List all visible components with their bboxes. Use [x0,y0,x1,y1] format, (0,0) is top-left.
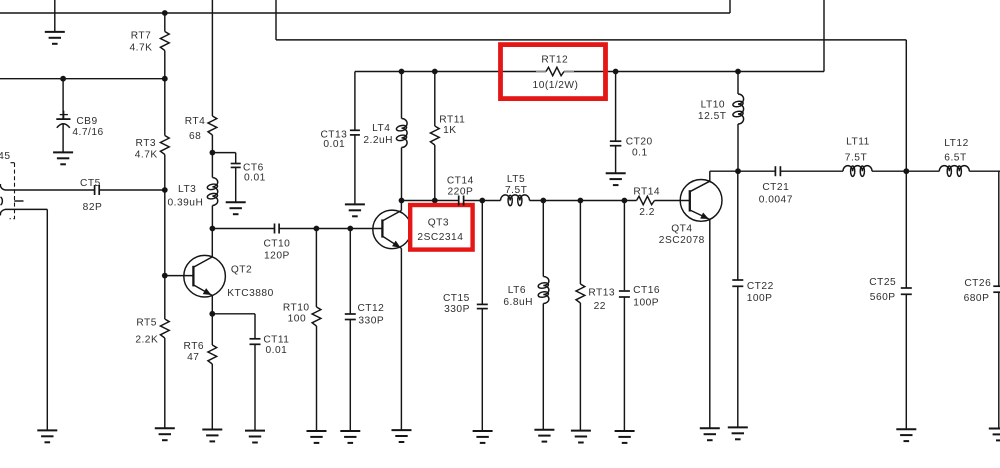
svg-text:0.01: 0.01 [244,173,266,184]
ground filter [37,430,57,442]
svg-text:RT14: RT14 [633,187,660,198]
wire LT5 to RT14 [530,200,637,202]
node junction CT16 tap [622,198,628,204]
svg-text:68: 68 [189,131,201,142]
svg-text:0.0047: 0.0047 [759,195,793,206]
svg-text:82P: 82P [83,202,103,213]
svg-text:CT15: CT15 [443,293,470,304]
ground under LT6 [534,430,554,442]
wire rail y=78.7 [0,78,165,80]
wire LT11 to LT12 [872,170,939,172]
svg-text:560P: 560P [870,292,896,303]
filter body arcs at left edge [0,184,5,215]
wire RT14 to QT4 base [655,200,690,202]
svg-text:2SC2078: 2SC2078 [659,235,705,246]
svg-text:CT26: CT26 [964,278,991,289]
svg-text:22: 22 [594,301,606,312]
inductor LT4 [363,72,407,201]
node junction LT10/CT22/QT4 collector [735,168,741,174]
svg-text:4.7K: 4.7K [135,149,158,160]
svg-text:2SC2314: 2SC2314 [417,232,463,243]
capacitor CT11 [212,314,289,431]
capacitor CT12 [345,229,385,432]
wire riser at x=824 [823,0,825,72]
node junction RT11 top [432,69,438,75]
wire QT2 emitter [211,296,213,314]
wire LT12 to edge [969,170,1000,172]
wire top rail riser at x=730 [729,0,731,13]
svg-text:7.5T: 7.5T [845,152,867,163]
node junction LT4/QT3 collector [399,198,405,204]
resistor RT10 [283,229,321,432]
svg-text:2.2K: 2.2K [135,334,158,345]
svg-text:CB9: CB9 [76,116,97,127]
node junction LT3/CT10/QT2 collector [210,226,216,232]
wire CT21 to LT11 [780,170,843,172]
ground under CT16 [615,431,635,443]
highlight box around QT3 [410,205,472,250]
svg-text:RT12: RT12 [541,54,568,65]
svg-text:CT10: CT10 [263,239,290,250]
ground under QT3 emitter [392,430,412,442]
node junction CT15 tap [479,198,485,204]
transistor QT3 [373,201,464,249]
svg-text:120P: 120P [264,250,290,261]
wire CT10 to QT3 base [279,228,382,230]
node junction RT7/RT3 [162,76,168,82]
capacitor CT25 [869,171,912,429]
inductor LT12 [939,138,969,177]
ground under CB9 [53,152,73,164]
svg-text:0.39uH: 0.39uH [167,197,203,208]
resistor RT5 [135,276,169,429]
svg-text:QT2: QT2 [231,265,252,276]
node junction QT2 emitter [209,311,215,317]
resistor RT14 [633,187,660,219]
resistor RT13 [576,201,615,431]
node junction LT6 tap [540,198,546,204]
svg-text:CT20: CT20 [626,136,653,147]
node junction CT12 tap [347,226,353,232]
svg-text:45: 45 [0,151,11,162]
wire x=165 RT3 to base tap [164,190,166,276]
wire rail y=70.7 left of RT12 [355,71,546,73]
capacitor CB9 (electrolytic) [56,79,103,153]
svg-text:LT4: LT4 [372,123,390,134]
svg-text:47: 47 [187,352,199,363]
node junction RT13 tap [578,198,584,204]
capacitor CT15 [443,201,488,432]
node junction LT10 top [735,69,741,75]
capacitor CT26 [964,171,1000,428]
svg-text:RT13: RT13 [588,287,615,298]
wire QT3 emitter [400,248,402,430]
svg-text:2.2uH: 2.2uH [363,135,393,146]
svg-text:CT12: CT12 [357,303,384,314]
ground under QT4 emitter [700,428,720,440]
wire filter middle stub [14,200,23,202]
svg-text:0.01: 0.01 [265,345,287,356]
transistor QT4 [659,171,722,246]
svg-text:RT3: RT3 [136,138,157,149]
svg-text:4.7/16: 4.7/16 [72,127,103,138]
svg-text:RT5: RT5 [136,318,157,329]
svg-text:2.2: 2.2 [639,207,655,218]
wire QT2 base [165,275,194,277]
inductor LT11 [843,136,872,176]
svg-text:10(1/2W): 10(1/2W) [533,80,579,91]
capacitor CT14 [402,176,474,206]
ground under CT12 [340,431,360,443]
node junction RT4/LT3/CT6 [210,150,216,156]
node junction CT5/RT3 [162,187,168,193]
node junction RT11 bottom [432,198,438,204]
svg-text:QT4: QT4 [671,223,692,234]
svg-text:330P: 330P [358,316,384,327]
wire riser x=906.6 [905,40,907,171]
capacitor CT22 [732,171,773,427]
resistor RT7 [130,13,170,79]
resistor RT3 [135,79,169,190]
wire rail y=70.7 right of RT12 [564,71,824,73]
ground under RT6 [202,430,222,442]
ground under CT11 [245,431,265,443]
ground under RT5 [155,428,175,440]
svg-text:12.5T: 12.5T [698,111,727,122]
ground under RT13 [571,431,591,443]
svg-text:CT5: CT5 [80,178,101,189]
svg-text:7.5T: 7.5T [505,185,527,196]
svg-text:LT6: LT6 [508,285,526,296]
svg-text:LT10: LT10 [701,100,725,111]
ground under RT10 [307,431,327,443]
transistor QT2 [184,229,274,300]
wire ground stub at x=55 [54,0,56,32]
node junction QT2 base tap [162,273,168,279]
capacitor CT10 [212,224,290,262]
svg-text:CT16: CT16 [633,285,660,296]
wire QT4 emitter [709,219,711,428]
svg-text:RT7: RT7 [131,31,152,42]
ground under CT26 [989,429,1000,441]
wire riser at x=276 [275,0,277,40]
wire filter bottom lead [5,209,47,430]
svg-text:0.01: 0.01 [323,139,345,150]
svg-text:6.8uH: 6.8uH [503,297,533,308]
inductor LT6 [503,201,549,430]
svg-text:4.7K: 4.7K [130,43,153,54]
svg-text:CT22: CT22 [747,281,774,292]
svg-text:CT14: CT14 [447,176,474,187]
wire CT14 to LT5 [464,200,501,202]
capacitor CT6 [212,153,265,203]
wire QT4 collector run [710,170,776,172]
ground under CT25 [896,429,916,441]
node junction LT11/LT12/CT25 [903,168,909,174]
svg-text:6.5T: 6.5T [944,153,966,164]
node junction on top rail at x=165 [162,10,168,16]
svg-text:LT3: LT3 [178,184,196,195]
svg-text:CT11: CT11 [263,334,289,345]
svg-text:RT4: RT4 [185,116,206,127]
ground under CT6 [226,202,246,214]
highlight box around RT12 [501,45,606,99]
wire rail y=38.5 [276,39,906,41]
label 45 (clipped part number) [0,151,11,162]
capacitor CT21 [759,166,793,205]
svg-text:680P: 680P [964,293,990,304]
inductor LT5 [501,174,530,206]
inductor LT3 [167,153,218,229]
ground under CT13 [345,204,365,216]
svg-text:100P: 100P [633,298,659,309]
resistor RT4 [185,0,217,153]
resistor RT12 [533,54,579,91]
capacitor CT16 [619,201,660,432]
svg-text:LT12: LT12 [944,138,968,149]
ground top-left [45,32,65,44]
resistor RT11 [430,72,465,201]
svg-text:100P: 100P [747,293,773,304]
inductor LT10 [698,72,744,172]
svg-text:100: 100 [288,313,307,324]
svg-text:CT21: CT21 [762,182,789,193]
svg-text:220P: 220P [448,187,474,198]
svg-text:1K: 1K [443,125,456,136]
resistor RT6 [184,314,217,430]
svg-text:0.1: 0.1 [632,148,648,159]
svg-text:RT10: RT10 [283,302,310,313]
svg-text:RT6: RT6 [184,341,205,352]
dashed outline of filter [10,163,15,219]
svg-text:330P: 330P [444,304,470,315]
svg-text:CT25: CT25 [869,277,896,288]
node junction CT20 top [613,69,619,75]
node junction RT10 tap [314,226,320,232]
capacitor CT13 [320,72,359,205]
ground under CT15 [473,431,493,443]
svg-text:KTC3880: KTC3880 [227,288,274,299]
capacitor CT20 [610,72,653,174]
ground under CT20 [606,173,626,185]
node junction CB9 tap [60,76,66,82]
svg-text:QT3: QT3 [428,217,449,228]
ground under CT22 [728,427,748,439]
wire top rail VCC (y=12) [0,12,730,14]
node junction LT4 top [399,69,405,75]
svg-text:LT11: LT11 [846,136,870,147]
svg-text:LT5: LT5 [507,174,525,185]
capacitor CT5 [5,178,165,213]
